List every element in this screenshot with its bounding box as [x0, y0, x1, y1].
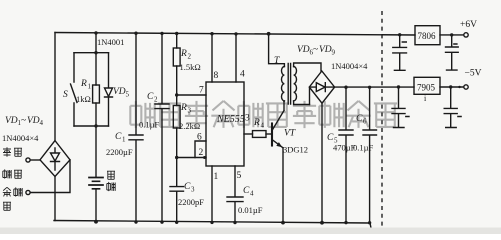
svg-text:NE555: NE555	[216, 114, 245, 125]
svg-text:S: S	[63, 90, 68, 100]
svg-text:0.1µF: 0.1µF	[353, 143, 374, 153]
svg-text:1: 1	[88, 83, 92, 91]
svg-text:4: 4	[250, 190, 254, 198]
svg-text:1kΩ: 1kΩ	[76, 94, 91, 104]
svg-text:R: R	[253, 118, 260, 128]
svg-text:2: 2	[188, 53, 192, 61]
svg-text:VD: VD	[319, 45, 332, 55]
svg-text:VD: VD	[113, 87, 126, 97]
svg-text:4: 4	[261, 122, 265, 130]
svg-text:3DG12: 3DG12	[283, 145, 308, 155]
svg-text:T: T	[274, 56, 280, 66]
svg-text:1N4004×4: 1N4004×4	[2, 133, 39, 143]
svg-text:1N4001: 1N4001	[97, 37, 124, 47]
svg-text:1: 1	[214, 172, 219, 182]
svg-text:2: 2	[199, 148, 204, 158]
svg-text:+6V: +6V	[460, 20, 477, 30]
svg-text:7: 7	[199, 86, 204, 96]
svg-text:~: ~	[313, 45, 318, 55]
svg-text:3: 3	[245, 114, 250, 124]
svg-text:2200µF: 2200µF	[106, 147, 133, 157]
svg-text:2: 2	[154, 96, 158, 104]
svg-text:0.1µF: 0.1µF	[139, 120, 160, 130]
svg-text:R: R	[180, 103, 187, 113]
svg-text:VT: VT	[284, 129, 296, 139]
svg-text:9: 9	[332, 49, 336, 57]
svg-text:C: C	[356, 114, 363, 124]
svg-text:5: 5	[237, 171, 242, 181]
svg-text:7806: 7806	[418, 31, 437, 41]
svg-text:R: R	[180, 49, 187, 59]
svg-text:3: 3	[191, 186, 195, 194]
svg-text:6: 6	[363, 118, 367, 126]
svg-text:7905: 7905	[417, 83, 436, 93]
svg-text:4: 4	[40, 119, 44, 127]
svg-text:6: 6	[197, 133, 202, 143]
svg-text:2200pF: 2200pF	[178, 197, 204, 207]
svg-text:VD: VD	[27, 116, 40, 126]
svg-text:C: C	[115, 132, 122, 142]
svg-text:VD: VD	[297, 45, 310, 55]
svg-text:0.01µF: 0.01µF	[238, 205, 263, 215]
svg-text:C: C	[184, 182, 191, 192]
svg-text:VD: VD	[5, 116, 18, 126]
svg-text:C: C	[243, 186, 250, 196]
svg-text:i: i	[424, 94, 427, 103]
svg-text:2.2kΩ: 2.2kΩ	[179, 121, 200, 131]
svg-text:C: C	[147, 92, 154, 102]
svg-text:~: ~	[21, 116, 26, 126]
svg-text:1: 1	[122, 136, 126, 144]
svg-text:8: 8	[214, 71, 219, 81]
svg-text:−5V: −5V	[465, 69, 482, 79]
svg-text:1N4004×4: 1N4004×4	[331, 61, 368, 71]
svg-text:3: 3	[188, 107, 192, 115]
svg-text:C: C	[327, 133, 334, 143]
svg-text:4: 4	[240, 70, 245, 80]
svg-text:R: R	[80, 79, 87, 89]
svg-text:5: 5	[126, 91, 130, 99]
svg-text:1.5kΩ: 1.5kΩ	[180, 62, 201, 72]
